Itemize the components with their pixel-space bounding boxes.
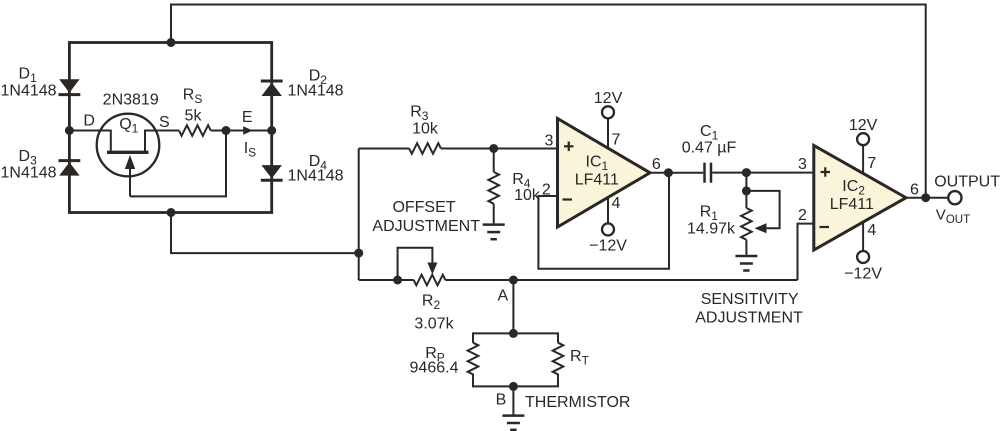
svg-text:1N4148: 1N4148 [1, 82, 57, 99]
svg-text:S: S [159, 114, 170, 131]
svg-text:4: 4 [867, 222, 876, 239]
svg-text:4: 4 [611, 195, 620, 212]
node C1/R1 junction [742, 168, 751, 177]
svg-text:10k: 10k [514, 187, 541, 204]
wire R3 to IC1 pin3 [441, 148, 558, 150]
svg-text:14.97k: 14.97k [687, 220, 736, 237]
node bridge top [167, 38, 176, 47]
svg-text:E: E [242, 109, 253, 126]
transistor Q1 2N3819 JFET [97, 114, 160, 197]
diode D1 (left top, pointing down) [59, 79, 81, 94]
svg-text:−12V: −12V [844, 265, 882, 282]
parallel loop RP / RT frame [473, 333, 558, 342]
current arrow IS [243, 126, 253, 134]
wire left vertical riser (R3 row to pot row) [358, 149, 360, 281]
svg-text:THERMISTOR: THERMISTOR [525, 394, 630, 411]
svg-text:2N3819: 2N3819 [103, 92, 159, 109]
svg-text:9466.4: 9466.4 [410, 360, 459, 377]
svg-text:7: 7 [867, 155, 876, 172]
potentiometer R2 3.07k with wiper arrow [359, 248, 446, 285]
node A [509, 276, 518, 285]
ground under R4 [483, 225, 505, 240]
svg-text:3: 3 [545, 133, 554, 150]
node R2 left [393, 276, 402, 285]
wire sensitivity riser to IC2 pin2 [798, 224, 814, 280]
op-amp IC1 LF411 [558, 112, 651, 227]
resistor RP 9466.4 vertical [468, 343, 479, 378]
svg-text:2: 2 [798, 207, 807, 224]
node E (bridge right mid) [267, 126, 276, 135]
diode D4 (right bottom, pointing down) [261, 165, 283, 180]
svg-text:SENSITIVITY: SENSITIVITY [701, 291, 799, 308]
svg-text:ADJUSTMENT: ADJUSTMENT [372, 218, 480, 235]
node IC1 output [664, 168, 673, 177]
svg-text:1N4148: 1N4148 [288, 168, 344, 185]
wire top feedback from bridge top to IC2 output [171, 5, 926, 198]
svg-text:1N4148: 1N4148 [288, 82, 344, 99]
svg-text:6: 6 [910, 181, 919, 198]
node R3/R4 junction [489, 144, 498, 153]
wire IC1 output to C1 [650, 172, 703, 174]
svg-text:7: 7 [611, 132, 620, 149]
supply terminal -12V IC2 [857, 251, 869, 263]
supply terminal 12V IC2 [857, 133, 869, 145]
wire bridge bottom to offset node [171, 213, 359, 254]
capacitor C1 0.47uF [705, 163, 712, 183]
wire node B to ground [512, 386, 514, 414]
op-amp IC2 LF411 [814, 139, 906, 257]
wire bridge rectangle (diode bridge frame) [69, 43, 271, 213]
supply terminal -12V IC1 [602, 223, 614, 235]
svg-text:A: A [497, 288, 508, 305]
node RP/RT top [509, 329, 518, 338]
wire main bridge row left (D node to JFET) [69, 130, 99, 132]
ground under R1 [735, 256, 757, 271]
svg-text:−12V: −12V [589, 238, 627, 255]
node bridge bottom [167, 208, 176, 217]
svg-text:D: D [83, 113, 95, 130]
output terminal circle [948, 191, 961, 204]
svg-text:10k: 10k [412, 121, 439, 138]
svg-text:LF411: LF411 [830, 196, 874, 213]
resistor RS 5k zigzag [179, 125, 211, 136]
wire IC2 output [906, 197, 948, 199]
node A vertical to parallel pair [512, 280, 514, 333]
svg-text:2: 2 [542, 181, 551, 198]
svg-text:6: 6 [652, 156, 661, 173]
wire gate loop to source junction [130, 131, 226, 197]
wire IC1 pin2 feedback loop [538, 173, 669, 269]
node D (bridge left mid) [65, 126, 74, 135]
svg-text:B: B [496, 392, 507, 409]
wire RS to E node on bridge right [211, 130, 272, 132]
svg-text:LF411: LF411 [575, 171, 619, 188]
ground under B [502, 416, 524, 430]
resistor RT thermistor vertical [553, 343, 564, 378]
node R1 wiper junction [742, 186, 751, 195]
svg-text:12V: 12V [849, 117, 878, 134]
node RS-gate junction [222, 126, 231, 135]
potentiometer R1 14.97k with wiper [741, 173, 780, 255]
wire pot row from R2 to sensitivity riser [445, 279, 797, 281]
svg-text:3: 3 [798, 156, 807, 173]
svg-text:OFFSET: OFFSET [392, 199, 455, 216]
wire R3 row start [359, 148, 410, 150]
svg-text:0.47 µF: 0.47 µF [682, 139, 737, 156]
wire C1 to IC2 pin3 [712, 172, 814, 174]
node IC2 output [921, 193, 930, 202]
resistor R3 10k zigzag [409, 143, 441, 154]
diode D3 (left bottom, pointing up) [59, 161, 81, 176]
svg-text:1N4148: 1N4148 [1, 165, 57, 182]
svg-text:3.07k: 3.07k [414, 315, 454, 332]
svg-text:OUTPUT: OUTPUT [934, 174, 1000, 191]
diode D2 (right top, pointing up) [261, 81, 283, 96]
node B (RP/RT bottom) [509, 382, 518, 391]
wire source to resistor RS [159, 130, 179, 132]
supply terminal 12V IC1 [602, 106, 614, 118]
svg-text:12V: 12V [594, 90, 623, 107]
svg-text:ADJUSTMENT: ADJUSTMENT [695, 309, 803, 326]
svg-text:5k: 5k [185, 108, 203, 125]
node offset riser junction [354, 249, 363, 258]
resistor R4 10k vertical [488, 149, 499, 224]
